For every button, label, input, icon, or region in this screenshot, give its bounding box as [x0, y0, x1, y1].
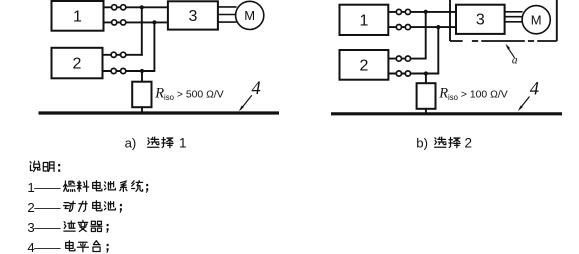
- svg-text:——: ——: [34, 240, 61, 254]
- wire: resistor bottom stem (right): [425, 108, 427, 114]
- junction dot on box1 plus line (right): [424, 10, 428, 14]
- wire: vertical bus B (left): [153, 22, 155, 71]
- wire: vertical bus B (right): [437, 27, 439, 73]
- svg-text:4: 4: [252, 79, 261, 99]
- arrowhead of leader a: [505, 44, 510, 50]
- wire: resistor top stem (right): [425, 74, 427, 85]
- leader line for 4 (left): [241, 95, 252, 109]
- connector contacts on box1 minus line (right): [396, 25, 401, 30]
- junction dot on box1 plus line: [140, 5, 144, 9]
- wire: box2 plus line: [103, 54, 143, 56]
- svg-text:3: 3: [189, 8, 198, 25]
- svg-text:4: 4: [530, 80, 539, 100]
- wire: box1 minus line to box3: [104, 21, 168, 23]
- svg-text:a: a: [512, 55, 518, 67]
- arrowhead of leader 4 (right): [518, 105, 523, 111]
- enclosure around inverter and motor (right diagram): [449, 0, 451, 41]
- enclosure bottom dash-dot boundary a: [450, 40, 463, 42]
- motor M (left diagram): [236, 1, 264, 29]
- connector contacts on box2 minus line (right): [396, 71, 401, 76]
- connector contacts on box1 plus line (right): [396, 9, 401, 14]
- svg-text:2: 2: [465, 135, 473, 150]
- wire: box2 minus line (right): [388, 73, 439, 75]
- svg-text:——: ——: [34, 180, 61, 195]
- connector contacts on box2 minus line: [111, 68, 116, 73]
- svg-text:M: M: [531, 12, 542, 27]
- wire: box1 plus line to box3: [104, 6, 168, 8]
- svg-text:——: ——: [34, 220, 61, 235]
- box 1 (fuel cell system, right diagram): [340, 5, 389, 35]
- wire: box2 minus line: [103, 70, 156, 72]
- svg-text:a): a): [125, 135, 137, 150]
- svg-text:2: 2: [359, 58, 368, 75]
- svg-text:2: 2: [73, 56, 82, 73]
- connector contacts on box2 plus line: [111, 52, 116, 57]
- svg-text:b): b): [416, 135, 428, 150]
- svg-text:1: 1: [73, 9, 82, 26]
- motor M (right diagram): [522, 6, 550, 34]
- wire: resistor bottom stem (left): [141, 107, 143, 113]
- three-phase lines box3 to motor (left): [218, 6, 237, 8]
- connector contacts on box1 plus line: [112, 5, 117, 10]
- arrowhead of leader 4 (left): [239, 105, 244, 111]
- electric platform line (right): [331, 112, 562, 115]
- junction dot at resistor tap (left): [140, 69, 144, 73]
- svg-text:——: ——: [34, 200, 61, 215]
- connector contacts on box1 minus line: [112, 20, 117, 25]
- wire: vertical bus A (left): [141, 7, 143, 55]
- box 3 (inverter, right diagram): [456, 5, 505, 34]
- box 1 (fuel cell system, left diagram): [52, 1, 104, 31]
- svg-text:Riso > 100 Ω/V: Riso > 100 Ω/V: [438, 86, 508, 102]
- wire: resistor top stem (left): [141, 71, 143, 83]
- junction dot on box1 minus line (right): [436, 25, 440, 29]
- wire: box1 plus line to box3 (right): [388, 11, 456, 13]
- electric platform line (left): [39, 111, 280, 114]
- box 3 (inverter, left diagram): [168, 1, 218, 29]
- leader line for a: [507, 46, 515, 57]
- legend heading shuoming:: [30, 161, 40, 171]
- junction dot on box1 minus line: [152, 20, 156, 24]
- three-phase lines box3 to motor (right): [505, 11, 523, 13]
- wire: vertical bus A (right): [425, 12, 427, 59]
- resistor Riso (right): [417, 83, 436, 109]
- svg-text:1: 1: [179, 135, 187, 150]
- junction dot at resistor tap (right): [424, 71, 428, 75]
- svg-text:3: 3: [476, 12, 485, 29]
- wire: box2 plus line (right): [388, 58, 426, 60]
- box 2 (traction battery, right diagram): [340, 50, 389, 80]
- leader line for 4 (right): [519, 97, 529, 110]
- svg-text:Riso > 500 Ω/V: Riso > 500 Ω/V: [154, 86, 224, 102]
- wire: box1 minus line to box3 (right): [388, 26, 456, 28]
- box 2 (traction battery, left diagram): [52, 48, 103, 79]
- svg-text:1: 1: [359, 13, 368, 30]
- svg-text:M: M: [244, 8, 255, 23]
- resistor Riso (left): [132, 82, 151, 108]
- connector contacts on box2 plus line (right): [396, 56, 401, 61]
